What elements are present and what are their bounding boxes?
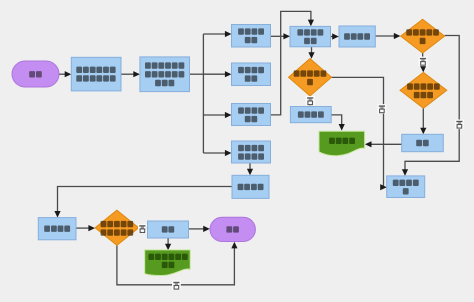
process 点击添加岗位	[232, 25, 271, 48]
wire 录入人员信息 to 点击保存	[331, 36, 334, 38]
wire trunk to 点击添加岗位	[203, 33, 226, 35]
process 勾选功能	[232, 175, 269, 198]
decision 人员岗位关系是否存在	[95, 210, 139, 245]
wire 保存 to 人员数据	[371, 143, 402, 145]
wire 是否需要保存 是 to 人员编号判断	[422, 53, 424, 67]
decision 是否确定删除	[289, 59, 332, 96]
wire 点击保存 to 是否需要保存	[375, 35, 395, 37]
wire 是否确定删除 否 to 返回列表页 left	[332, 77, 384, 187]
wire 选择人员维护功能 to 勾选功能	[249, 163, 251, 170]
wire 判断 bottom loop to 结束	[117, 245, 234, 284]
end node 结束	[210, 217, 255, 241]
wire 录入人员信息 to 是否确定删除	[311, 47, 313, 53]
process 数据删除	[290, 107, 331, 123]
wire 保存 to 结束	[189, 228, 205, 230]
process 点击保存 top	[339, 26, 375, 47]
decision 人员编号是否存在	[400, 72, 447, 108]
wire trunk to 选择人员删除	[203, 73, 226, 75]
wire 打开人员维护 to trunk	[190, 73, 204, 75]
wire 开始 to 输入用户名	[59, 73, 66, 75]
process 点击保存 bottom	[38, 218, 76, 240]
label 否 right branch 人员岗位关系	[138, 224, 147, 234]
process 返回列表页	[387, 176, 425, 198]
wire 是否确定删除 是 to 数据删除	[309, 96, 311, 101]
process 选择人员删除	[232, 63, 271, 86]
wire 判断否 to 保存	[139, 227, 148, 229]
process 打开人员维护页面显示人员列表	[140, 57, 190, 92]
process 保存 bottom	[148, 221, 189, 238]
wire 数据删除 to 人员数据 top	[331, 115, 342, 125]
process 选择人员维护功能	[232, 141, 271, 163]
wire 点击保存 to 人员岗位关系判断	[76, 227, 89, 229]
wire trunk to 选择人员维护功能	[203, 152, 226, 154]
wire 输入用户名 to 打开人员维护	[121, 73, 134, 75]
wire trunk vertical	[202, 34, 204, 153]
label 否 bottom loop	[172, 281, 181, 291]
process 保存 right	[402, 134, 444, 151]
wire 选择人员修改 loop to 录入人员信息 top	[271, 11, 311, 115]
process 选择人员修改	[232, 104, 271, 126]
document 人员数据	[319, 131, 365, 155]
process 录入人员信息	[290, 26, 331, 46]
document 人员功能关系数据	[145, 250, 191, 276]
wire 是否需要保存 否 to 返回列表页 top	[405, 36, 459, 171]
label 是 below 是否需要保存	[419, 57, 428, 67]
wire 人员编号判断 to 保存	[422, 108, 424, 129]
label 否 branch 是否确定删除	[378, 104, 387, 114]
wire trunk to 选择人员修改	[203, 114, 226, 116]
process 输入用户名和密码进行登录	[71, 57, 121, 91]
label 是 below 是否确定删除	[306, 96, 315, 106]
wire 点击添加岗位 to 录入人员信息	[271, 35, 285, 37]
wire 勾选功能 to 点击保存	[58, 187, 233, 213]
decision 是否需要保存	[401, 19, 445, 53]
wire 保存 to 人员功能关系数据	[167, 238, 169, 245]
label 否 right branch 是否需要保存	[455, 120, 464, 130]
start node 开始	[12, 61, 59, 87]
